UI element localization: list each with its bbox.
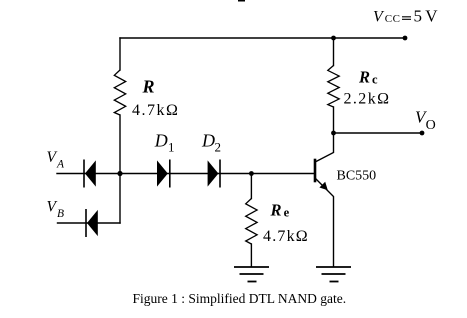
svg-text:4.7kΩ: 4.7kΩ bbox=[132, 102, 179, 119]
svg-text:5: 5 bbox=[414, 6, 423, 25]
svg-text:2.2kΩ: 2.2kΩ bbox=[344, 91, 391, 108]
svg-text:R: R bbox=[270, 201, 282, 220]
svg-text:O: O bbox=[426, 118, 436, 133]
svg-text:V: V bbox=[47, 199, 58, 216]
svg-text:BC550: BC550 bbox=[337, 169, 377, 184]
svg-text:V: V bbox=[425, 6, 438, 25]
svg-text:A: A bbox=[56, 159, 65, 171]
svg-text:c: c bbox=[372, 72, 378, 86]
svg-text:e: e bbox=[284, 205, 290, 219]
svg-text:1: 1 bbox=[168, 140, 175, 155]
svg-text:D: D bbox=[154, 131, 168, 151]
svg-text:CC: CC bbox=[385, 13, 401, 25]
svg-text:2: 2 bbox=[215, 140, 222, 155]
svg-text:R: R bbox=[358, 68, 370, 87]
svg-text:R: R bbox=[142, 77, 155, 97]
svg-text:4.7kΩ: 4.7kΩ bbox=[263, 228, 309, 245]
svg-text:D: D bbox=[201, 131, 215, 151]
svg-text:B: B bbox=[57, 208, 64, 220]
svg-text:V: V bbox=[47, 149, 58, 166]
svg-text:Figure 1 : Simplified DTL NAND: Figure 1 : Simplified DTL NAND gate. bbox=[133, 291, 347, 306]
